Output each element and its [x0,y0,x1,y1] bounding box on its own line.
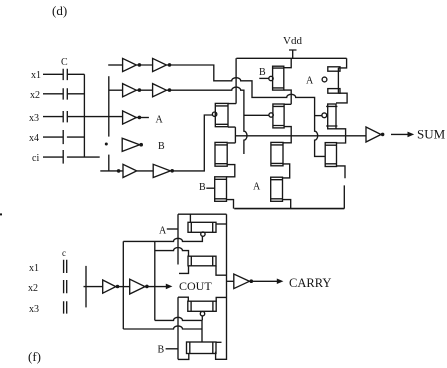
wire [136,64,152,66]
wire x1 cap to bus [68,73,85,75]
wire T2 to T3 [227,165,235,177]
pass rail v178 upper [177,214,179,264]
wire x1 [43,73,63,75]
wire rail to TB1 [178,297,188,301]
wire B to PB bubble [259,77,269,79]
buffer U3 (A) [123,111,137,124]
transistor M1 [269,104,284,128]
feedback bus 3 [122,241,124,329]
wire TB2 top stub [216,341,222,343]
svg-text:A: A [159,226,167,237]
Vdd terminal [289,50,297,58]
svg-text:B: B [158,141,165,152]
wire TA2 left hook [179,266,189,274]
wire x3 cap to buffer U3 [68,116,123,118]
node dot U2b out [168,88,172,92]
transistor R2 [322,104,338,129]
capacitor C ci (left plate) [62,150,64,164]
svg-text:A: A [156,115,164,126]
wire h1 (TA1 gate line) [123,236,202,241]
wire h4 [123,326,202,329]
svg-text:x1: x1 [31,70,41,81]
svg-text:ci: ci [32,153,39,164]
wire M1 source to M2 drain [283,127,291,143]
svg-text:A: A [253,182,261,193]
wire TB1 gate drop [201,316,203,321]
floating gate bus [85,266,87,308]
svg-text:x2: x2 [28,283,38,294]
wire row5 to T1 gate [170,115,212,171]
svg-text:(f): (f) [28,349,41,364]
buffer U7a [103,280,116,293]
wire R2 source to SUM node [336,129,346,135]
wire R1 source to R2 drain [336,93,347,103]
node dot U2a out [138,88,142,92]
buffer U7b [130,279,145,294]
transistor TA2 [188,256,216,266]
svg-text:COUT: COUT [179,279,212,293]
node dot on bus 2 [105,143,108,146]
SUM node wire [235,135,366,137]
buffer U6 (SUM) [366,127,381,142]
svg-text:B: B [158,345,165,356]
wire SUM node to R3 drain [337,135,346,143]
svg-text:C: C [61,57,68,68]
buffer U2a [123,84,137,97]
wire T1 to T2 via SUM node drop [228,127,236,143]
wire arrow to SUM [391,133,410,135]
wire U3 out stub [136,117,149,119]
wire x2 [43,93,63,95]
node dot U1a out [138,63,142,67]
transistor TB2 [187,342,217,354]
buffer U1b [153,58,167,71]
wire rail to CARRY buffer [227,280,234,282]
wire h3 (TB1 gate line) [155,317,202,342]
transistor TB1 [188,301,216,316]
svg-text:x3: x3 [29,304,39,315]
node dot U7a out [116,285,120,289]
capacitor c x3 [64,301,67,313]
buffer U2b [153,84,167,97]
tick mark left edge [0,213,2,215]
wire row1 input [108,64,122,66]
svg-text:x1: x1 [29,263,39,274]
node dot row5 in [117,169,121,173]
wire TB1 to right rail [216,297,226,301]
arrowhead SUM [408,132,415,138]
buffer U1a [123,58,137,71]
wire branch to R2 gate [315,115,322,117]
wire row2 input [109,89,123,91]
wire x3 [43,116,63,118]
wire PB drain to rail [284,58,291,67]
buffer U4 (B) [122,138,139,151]
svg-text:x2: x2 [30,90,40,101]
capacitor c x2 [64,280,67,293]
transistor T2 [215,142,227,166]
wire B to T3 gate [206,187,214,189]
buffer U8 (CARRY) [234,274,250,289]
wire M2 source to M3 drain [283,164,290,178]
capacitor C x2 [63,88,67,99]
transistor T1 [212,103,228,126]
wire T3 to bottom rail [227,200,234,209]
node dot U1b out [168,63,172,67]
wire bus to buffer [84,286,103,288]
node dot U6 out [381,133,385,137]
wire M3 source to bottom rail [283,200,291,209]
capacitor c x1 [64,260,67,273]
node dot U5b out [170,169,174,173]
transistor M3 [271,177,283,201]
bottom rail wire [234,208,344,210]
top rail wire [236,57,346,59]
svg-text:c: c [62,248,66,258]
wire TA2 to right rail [216,266,227,275]
block top wire [178,213,227,215]
arrowhead COUT [166,284,173,290]
node dot U4 out [139,143,143,147]
svg-text:A: A [306,76,314,87]
wire row5 input [100,170,123,172]
svg-text:B: B [259,67,266,78]
wire x4 [43,136,63,138]
pass rail v178 lower [177,297,179,359]
svg-text:SUM: SUM [417,127,446,142]
wire top to TA1 [189,214,191,222]
node dot U8 out [250,279,254,283]
svg-text:B: B [199,182,206,193]
wire rail to R1 drain [338,58,346,68]
transistor PB [269,66,284,90]
transistor M2 [271,142,283,165]
svg-text:Vdd: Vdd [283,35,302,47]
wire ci [43,156,63,158]
wire h2 (TA2 gate line) [155,248,189,257]
wire to COUT arrow [145,286,166,288]
capacitor C x1 [63,69,67,80]
bus node 2 (lower) [108,155,110,171]
capacitor C x4 (left plate) [62,130,64,144]
right rail (COUT node) [216,214,227,359]
wire row2 to network [166,87,247,154]
transistor T3 [215,177,227,202]
wire rail wrap to TB2 [178,354,189,360]
wire to CARRY arrow [249,280,277,282]
svg-text:x4: x4 [29,133,39,144]
transistor R3 [325,143,336,167]
bus node 2 (upper) [108,76,110,136]
transistor TA1 [188,222,216,236]
node dot U3 out [138,116,142,120]
node dot U7b out [145,285,149,289]
gate bus v154 [154,241,156,320]
wire [136,89,152,91]
wire x2 cap to bus [68,93,85,95]
wire to U7b [116,286,130,288]
wire branch to M1 gate [244,114,269,116]
transistor R1 [322,67,340,93]
svg-text:(d): (d) [52,3,67,18]
wire R3 source to bottom rail [337,166,346,209]
buffer U5a [123,164,137,177]
wire ci cap to right [67,156,100,158]
wire B to rail [166,348,178,350]
arrowhead CARRY [277,279,284,285]
wire row1 to network [166,65,325,156]
wire TA1 to right rail [216,223,227,225]
buffer U5b [153,164,170,177]
capacitor C x3 [63,111,67,122]
wire PB source to M1 drain [284,90,291,104]
bus node 1 [83,74,85,157]
wire x4 cap to bus [67,136,85,138]
wire rail to T1 drain [228,58,236,103]
svg-text:x3: x3 [29,113,39,124]
wire [137,170,154,172]
wire A to rail [167,228,178,230]
svg-text:CARRY: CARRY [289,276,331,290]
